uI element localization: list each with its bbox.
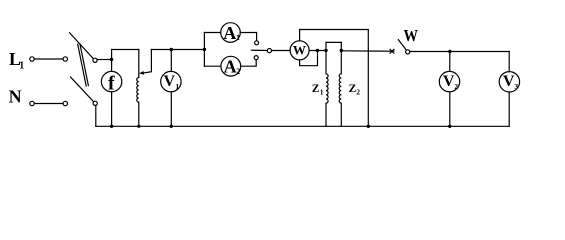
junction V1 top [170,48,173,51]
label z1 [312,83,324,96]
meter V1 branch wire upper [170,50,172,72]
junction ammeter split [203,48,206,51]
wire top rail mid [151,49,204,51]
impedance z1 [326,42,328,126]
terminal L1 left [30,57,34,61]
svg-text:A: A [224,57,237,77]
wire z top bar [326,41,341,43]
switch S pole 2 contact [93,101,97,105]
meter V2 [439,71,459,91]
selector lever [251,49,267,51]
svg-text:2: 2 [356,88,360,97]
meter f [101,71,121,91]
junction autotransformer bottom [137,125,140,128]
junction loop bottom [367,125,370,128]
meter V2 branch lower [449,92,451,127]
meter V2 branch upper [449,52,451,72]
meter V3 [499,72,519,92]
switch W blade [398,40,406,50]
terminal selector common [267,49,271,53]
label N [9,87,22,107]
svg-text:Z: Z [312,83,320,95]
meter V3 branch upper [508,52,510,72]
label W switch [404,26,419,45]
switch W contact [406,50,410,54]
svg-text:3: 3 [514,82,518,91]
junction U link [316,49,319,52]
svg-text:V: V [164,73,176,90]
label L1 [9,49,24,72]
wire A2 branch left [204,65,221,67]
svg-text:V: V [443,73,455,90]
meter f branch wire lower [111,92,113,127]
switch S pole 2 blade [71,77,94,102]
junction z1 [324,49,327,52]
svg-text:2: 2 [454,82,458,91]
node junction f-tap [110,58,113,61]
wire ammeter split vertical [203,33,205,67]
switch S pole 1 blade [70,33,94,59]
junction V1 bottom [170,125,173,128]
terminal A1 plug [255,41,259,45]
wire W to z1 [309,50,326,52]
wire A1 branch right [240,33,256,41]
junction f bottom [110,125,113,128]
wire pole2 down [95,105,97,126]
svg-text:1: 1 [175,82,179,91]
wire switch to V2 V3 [410,51,509,53]
autotransformer wiper wire [143,50,152,74]
wire L1 lead [34,58,63,60]
wire bottom rail [96,125,509,127]
autotransformer T winding [137,50,139,127]
switch S pole 1 contact [93,58,97,62]
junction V2 top [448,50,451,53]
wire selector to W [272,50,291,52]
svg-text:1: 1 [19,61,24,72]
junction V2 bottom [448,125,451,128]
switch S linkage bar [78,44,87,86]
svg-text:V: V [503,73,515,90]
svg-text:2: 2 [236,67,240,76]
svg-text:N: N [9,87,22,107]
meter f branch wire upper [111,50,113,72]
svg-text:1: 1 [236,33,240,42]
wire top rail left [112,49,139,51]
wire pole1 to node [97,59,111,61]
label z2 [349,83,361,96]
impedance z2 [339,42,341,126]
terminal N left [30,101,34,105]
meter V1 [161,71,181,91]
svg-text:A: A [223,23,236,43]
wattmeter top loop [300,30,369,127]
terminal L1 right [63,57,67,61]
meter A2 [221,56,241,76]
wire z2 to switch [341,50,394,52]
wattmeter W [290,41,309,60]
wire A1 branch left [204,32,220,34]
wattmeter voltage coil U link [300,51,318,66]
fuse cross mark [390,49,394,53]
svg-text:W: W [293,42,306,57]
svg-text:1: 1 [320,88,324,97]
wire N lead [34,103,63,105]
svg-text:W: W [404,26,419,45]
meter V3 branch lower [508,92,510,126]
terminal A2 plug [254,56,258,60]
wire A2 branch right [241,60,257,67]
junction z2 [340,49,343,52]
terminal N right [63,101,67,105]
meter V1 branch wire lower [170,92,172,127]
autotransformer wiper arrowhead [139,71,144,75]
svg-text:f: f [108,72,115,94]
meter A1 [221,23,241,43]
